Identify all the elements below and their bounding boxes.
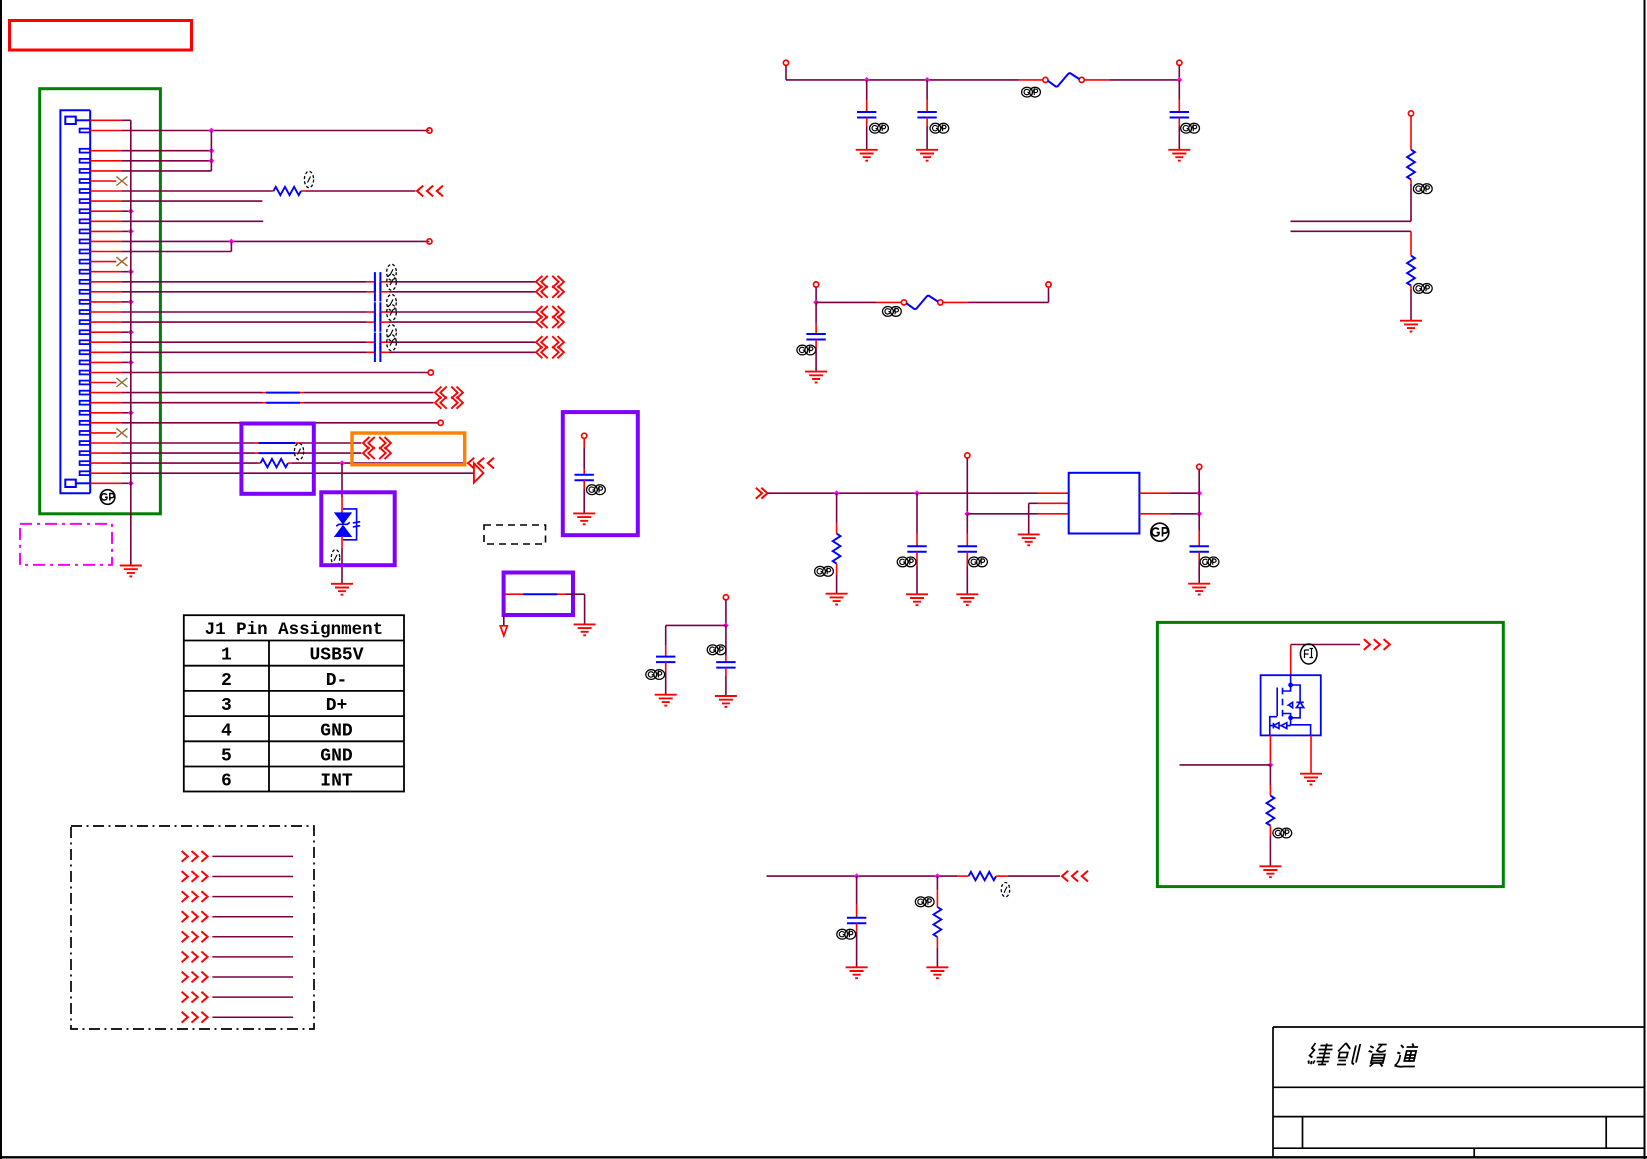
open terminal: [427, 239, 432, 244]
wire to resistor: [936, 876, 938, 890]
wire to capacitor: [966, 514, 968, 534]
bidirectional port arrows: [435, 397, 463, 409]
wire pin 5: [121, 170, 211, 172]
resistor: [833, 534, 841, 564]
port arrow >>> row 4: [182, 911, 208, 922]
no-connect X pin 14: [116, 257, 127, 266]
resistor (upper): [1407, 150, 1415, 180]
series resistor: [969, 872, 997, 880]
stub wire row 1: [212, 855, 293, 857]
wire U1 pin to ground: [1029, 502, 1038, 504]
connector pin 29: [80, 411, 91, 415]
series capacitor: [375, 272, 381, 291]
svg-text:2: 2: [221, 671, 232, 691]
resistor (lower): [1407, 256, 1415, 286]
wire to capacitor: [1198, 514, 1200, 531]
wire gate input: [1180, 764, 1271, 766]
stub wire row 6: [212, 956, 293, 958]
wire: [966, 458, 968, 514]
wire pin 34 to resistor: [121, 462, 257, 464]
wire resistor to port: [292, 462, 467, 464]
wire pin 36 to bus: [121, 482, 130, 484]
red annotation box: [10, 21, 192, 51]
port arrow <<<: [1062, 871, 1088, 882]
green highlight box around connector J1: [40, 89, 161, 514]
capacitor C: [575, 475, 594, 481]
output port >>>: [1364, 639, 1390, 650]
junction: [914, 490, 920, 496]
bidirectional port arrows: [536, 316, 564, 328]
vertical tie wire rows 12-13: [230, 241, 232, 251]
connector pin 16: [80, 280, 91, 284]
wire to U1: [768, 492, 1038, 494]
wire pin 28: [121, 402, 262, 404]
connector pin 1 (wide pin): [65, 117, 76, 124]
capacitor: [806, 334, 825, 340]
series element (jumper): [259, 442, 296, 444]
orange highlight box: [352, 433, 465, 465]
wire pin 23 to series capacitor: [121, 351, 366, 353]
wire Q1 drain to port: [1291, 644, 1360, 646]
sheet border bottom: [0, 1156, 1647, 1158]
bidirectional port arrows: [536, 346, 564, 358]
connector pin 14: [80, 260, 91, 264]
capacitor label: [969, 557, 988, 567]
wire pin 13: [121, 251, 231, 253]
port arrow >>> row 1: [182, 851, 208, 862]
pin 31 stub: [90, 432, 116, 434]
vertical tie wire rows 2-5: [210, 131, 212, 171]
pin 33 stub: [90, 452, 121, 454]
sheet border right: [1644, 0, 1646, 1159]
connector pin 33: [80, 451, 91, 455]
open terminal: [814, 282, 819, 287]
wire pin 29 to bus: [121, 412, 130, 414]
wire pin 20 to series capacitor: [121, 321, 366, 323]
pin 9 stub: [90, 210, 121, 212]
wire: [1109, 79, 1179, 81]
connector pin 10: [80, 219, 91, 223]
wire to ground: [966, 566, 968, 594]
wire (upper tap): [1291, 220, 1412, 222]
junction: [1196, 511, 1202, 517]
capacitor label: [387, 305, 397, 321]
wire: [785, 65, 787, 80]
connector pin 20: [80, 320, 91, 324]
magenta dash-dot annotation box: [20, 524, 112, 565]
svg-text:3: 3: [221, 696, 232, 716]
pin 29 stub: [90, 412, 121, 414]
svg-text:4: 4: [221, 721, 232, 741]
open terminal: [1046, 282, 1051, 287]
connector ground bus: [130, 120, 132, 565]
char 3: [1365, 1045, 1388, 1067]
wire: [816, 301, 876, 303]
wire pin 16 to series capacitor: [121, 281, 366, 283]
capacitor: [1190, 546, 1209, 552]
signal wire: [767, 875, 958, 877]
wire to capacitor: [856, 876, 858, 905]
connector pin 8: [80, 199, 91, 203]
junction: [209, 148, 215, 154]
black dashed connector-detail box: [71, 826, 314, 1029]
resistor label: [815, 566, 834, 576]
purple highlight box 3: [563, 412, 638, 535]
stub wire row 5: [212, 936, 293, 938]
pin 1 stub: [90, 119, 121, 121]
capacitor label: [837, 929, 856, 939]
wire pin 8 stub net: [121, 200, 262, 202]
ground: [655, 695, 677, 706]
connector pin 2: [80, 129, 91, 133]
wire: [1170, 513, 1199, 515]
wire pin 4: [121, 160, 211, 162]
ground: [926, 967, 948, 978]
open terminal: [438, 420, 443, 425]
purple highlight box 4: [504, 573, 573, 616]
junction to TVS: [339, 460, 345, 466]
pin 32 stub: [90, 442, 121, 444]
wire to capacitor: [815, 302, 817, 323]
junction on bus at pin 24: [128, 360, 134, 366]
svg-text:GND: GND: [320, 721, 353, 741]
port arrow >>> row 7: [182, 972, 208, 983]
series capacitor: [375, 343, 381, 362]
wire capacitor to port: [389, 291, 536, 293]
wire to resistor: [1269, 765, 1271, 785]
connector pin 31: [80, 431, 91, 435]
U1 output pin: [1139, 492, 1170, 494]
capacitor label: [387, 335, 397, 351]
open terminal: [1197, 464, 1202, 469]
series element (jumper): [259, 452, 296, 454]
resistor label: [1001, 883, 1009, 897]
pin 13 stub: [90, 251, 121, 253]
capacitor: [907, 546, 926, 552]
label oval in purple box 1: [294, 443, 303, 459]
wire pin 9 to bus: [121, 210, 130, 212]
capacitor: [656, 657, 675, 663]
port arrow <<<: [468, 458, 494, 469]
pin 15 stub: [90, 271, 121, 273]
series capacitor: [375, 302, 381, 321]
resistor label: [1273, 828, 1292, 838]
char 4: [1394, 1044, 1420, 1067]
U1 output pin: [1139, 513, 1170, 515]
connector pin 24: [80, 361, 91, 365]
no-connect X pin 6: [116, 177, 127, 186]
junction: [229, 239, 235, 245]
series element (jumper): [266, 402, 300, 404]
wire to port: [299, 452, 362, 454]
connector pin 27: [80, 391, 91, 395]
stub wire row 8: [212, 996, 293, 998]
ground: [1259, 866, 1281, 877]
wire to capacitor: [665, 625, 667, 645]
wire to port: [299, 442, 362, 444]
wire pin 11 to bus: [121, 230, 130, 232]
wire to capacitor: [866, 80, 868, 100]
TVS diode (bidirectional): [335, 513, 350, 536]
pin 18 stub: [90, 301, 121, 303]
capacitor label: [707, 645, 726, 655]
connector pin 7: [80, 189, 91, 193]
Q1 gate wire: [1269, 735, 1271, 762]
wire: [566, 593, 585, 595]
pin 30 stub: [90, 422, 121, 424]
transistor Q1 (P-MOSFET): [1261, 675, 1321, 735]
pin 35 stub: [90, 472, 121, 474]
TVS label: [331, 550, 339, 567]
wire pin 7 to resistor: [121, 190, 271, 192]
connector pin 22: [80, 340, 91, 344]
wire to port: [1008, 875, 1060, 877]
svg-text:GND: GND: [320, 747, 353, 767]
junction on bus at pin 18: [128, 299, 134, 305]
ground: [956, 594, 978, 605]
series element (jumper): [266, 392, 300, 394]
series capacitor: [375, 312, 381, 331]
port arrow >>> row 3: [182, 891, 208, 902]
svg-text:USB5V: USB5V: [309, 646, 363, 666]
wire: [725, 600, 727, 626]
port arrow >>> row 6: [182, 952, 208, 963]
capacitor label: [870, 123, 889, 133]
ground: [1188, 584, 1210, 595]
junction: [854, 873, 860, 879]
stub wire row 9: [212, 1016, 293, 1018]
no-connect X pin 26: [116, 378, 127, 387]
pin 36 stub: [90, 482, 121, 484]
TVS parallel capacitor branch: [343, 509, 360, 540]
capacitor label: [897, 557, 916, 567]
ground: [906, 594, 928, 605]
ground (source): [1300, 774, 1322, 785]
wire pin 22 to series capacitor: [121, 341, 366, 343]
Q1 reference label: [1300, 644, 1317, 664]
wire to ground: [725, 676, 727, 696]
wire pin1 to bus: [121, 119, 130, 121]
wire TVS to ground: [341, 548, 343, 583]
ground: [805, 372, 827, 383]
capacitor label: [387, 325, 397, 341]
pin 14 stub: [90, 261, 116, 263]
resistor label: [304, 171, 313, 187]
wire to ground: [815, 348, 817, 371]
ground: [856, 150, 878, 161]
IC U1: [1069, 473, 1140, 534]
wire below box 4: [503, 615, 505, 626]
wire pin 30 long net: [121, 422, 438, 424]
open terminal: [783, 60, 788, 65]
connector pin 35: [80, 471, 91, 475]
series capacitor: [375, 282, 381, 301]
wire capacitor to port: [389, 351, 536, 353]
wire to resistor: [836, 493, 838, 524]
bidirectional port arrows: [536, 276, 564, 288]
wire to ground: [583, 489, 585, 513]
port arrow >>> row 8: [182, 992, 208, 1003]
connector pin 5: [80, 169, 91, 173]
capacitor: [847, 918, 866, 924]
resistor (series): [274, 187, 302, 195]
connector pin 30: [80, 421, 91, 425]
pin 6 stub: [90, 180, 116, 182]
junction: [209, 128, 215, 134]
open terminal: [1408, 111, 1413, 116]
pin 4 stub: [90, 160, 121, 162]
ground: [846, 967, 868, 978]
pin 3 stub: [90, 150, 121, 152]
pin 17 stub: [90, 291, 121, 293]
port arrow >>> row 2: [182, 871, 208, 882]
pin 16 stub: [90, 281, 121, 283]
pin 27 stub: [90, 392, 121, 394]
junction on bus at pin 9: [128, 208, 134, 214]
wire to port: [304, 392, 434, 394]
wire: [815, 287, 817, 302]
open terminal: [428, 370, 433, 375]
connector pin 36 (wide pin): [65, 480, 76, 487]
wire to ground: [665, 672, 667, 695]
resistor (series): [261, 459, 289, 467]
capacitor label: [646, 670, 665, 680]
stub wire row 2: [212, 876, 293, 878]
ground: [1400, 321, 1422, 332]
ground: [916, 150, 938, 161]
bidirectional port arrows: [536, 286, 564, 298]
junction: [964, 511, 970, 517]
capacitor: [958, 546, 977, 552]
Q1 source wire: [1310, 735, 1312, 773]
decoupling capacitor: [917, 112, 936, 118]
gate pull resistor: [1267, 796, 1275, 826]
decoupling capacitor: [1170, 112, 1189, 118]
resistor label: [1413, 184, 1432, 194]
connector pin 21: [80, 330, 91, 334]
capacitor label: [387, 274, 397, 290]
pin 23 stub: [90, 351, 121, 353]
pin 2 stub: [90, 130, 121, 132]
svg-text:D+: D+: [326, 696, 348, 716]
pin 28 stub: [90, 402, 121, 404]
bidirectional port arrows: [536, 336, 564, 348]
junction: [723, 623, 729, 629]
connector pin 13: [80, 250, 91, 254]
no-connect X pin 31: [116, 428, 127, 437]
junction: [864, 77, 870, 83]
junction: [935, 873, 941, 879]
junction on bus at pin 29: [128, 410, 134, 416]
wire: [1170, 492, 1199, 494]
wire pin 33: [121, 452, 254, 454]
wire capacitor to port: [389, 281, 536, 283]
junction: [1196, 490, 1202, 496]
pin 22 stub: [90, 341, 121, 343]
ground: [826, 594, 848, 605]
wire to ground: [916, 566, 918, 594]
wire pin 17 to series capacitor: [121, 291, 366, 293]
series capacitor: [375, 333, 381, 352]
connector pin 11: [80, 230, 91, 234]
capacitor label: [930, 123, 949, 133]
ground (U1 pin): [1018, 534, 1040, 545]
pin stub: [505, 593, 523, 595]
port arrow >>> row 5: [182, 931, 208, 942]
GP label connector: [100, 490, 115, 505]
decoupling capacitor: [857, 112, 876, 118]
wire pin 32: [121, 442, 254, 444]
wire pin 3: [121, 150, 211, 152]
wire to U1: [967, 513, 1038, 515]
wire pin 27: [121, 392, 262, 394]
wire capacitor to port: [389, 341, 536, 343]
wire to ground: [856, 932, 858, 967]
pin 12 stub: [90, 240, 121, 242]
open triangle port (down): [500, 626, 507, 636]
connector pin 23: [80, 350, 91, 354]
pin 7 stub: [90, 190, 121, 192]
wire pin 12 long net: [121, 240, 429, 242]
wire pin 18 to bus: [121, 301, 130, 303]
series element (jumper): [523, 593, 558, 595]
wire: [1198, 469, 1200, 493]
wire capacitor to port: [389, 321, 536, 323]
stub wire row 4: [212, 916, 293, 918]
wire: [1198, 493, 1200, 514]
wire (lower tap): [1291, 230, 1412, 232]
wire: [1410, 184, 1412, 221]
stub wire row 3: [212, 896, 293, 898]
connector pin 28: [80, 401, 91, 405]
power rail wire: [786, 79, 1019, 81]
svg-text:D-: D-: [326, 671, 348, 691]
wire to ground: [584, 594, 586, 624]
svg-text:6: 6: [221, 772, 232, 792]
connector pin 3: [80, 149, 91, 153]
wire: [1178, 65, 1180, 80]
wire to ground: [926, 126, 928, 149]
connector pin 6: [80, 179, 91, 183]
connector pin 15: [80, 270, 91, 274]
junction: [1268, 762, 1274, 768]
pin 10 stub: [90, 220, 121, 222]
title block frame: [1273, 1027, 1645, 1157]
svg-text:5: 5: [221, 747, 232, 767]
wire pin 35 to port: [121, 472, 474, 474]
wire pin 24 to bus: [121, 361, 130, 363]
GP label U1: [1151, 523, 1169, 541]
connector pin 12: [80, 240, 91, 244]
purple highlight box 1: [241, 424, 313, 494]
svg-text:J1 Pin Assignment: J1 Pin Assignment: [205, 620, 384, 640]
connector pin 9: [80, 209, 91, 213]
bidirectional port arrows: [363, 447, 391, 459]
J1 pin assignment table: [184, 615, 404, 791]
wire pin 21 to bus: [121, 331, 130, 333]
junction: [834, 490, 840, 496]
pin 8 stub: [90, 200, 121, 202]
wire: [1028, 503, 1030, 534]
char 2: [1335, 1043, 1360, 1065]
junction on bus at pin 11: [128, 229, 134, 235]
wire to ground: [1178, 126, 1180, 149]
open terminal: [1177, 60, 1182, 65]
wire pin 19 to series capacitor: [121, 311, 366, 313]
ferrite bead FB: [901, 300, 906, 305]
input port >>: [756, 488, 768, 499]
junction: [209, 158, 215, 164]
